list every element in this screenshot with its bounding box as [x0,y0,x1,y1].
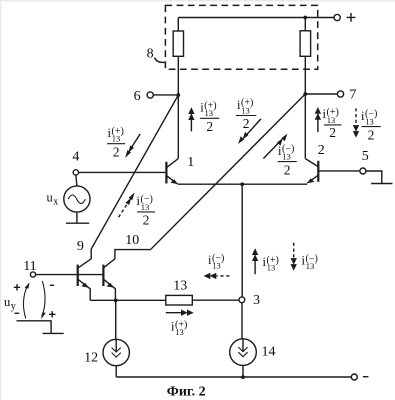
svg-text:2: 2 [206,119,213,134]
svg-text:x: x [53,196,58,207]
svg-text:13: 13 [267,263,276,273]
svg-text:9: 9 [77,239,84,254]
svg-text:2: 2 [284,162,291,177]
svg-text:2: 2 [368,127,375,142]
svg-text:13: 13 [112,134,121,144]
svg-text:7: 7 [349,87,356,102]
svg-text:6: 6 [134,89,141,104]
svg-text:10: 10 [125,233,139,248]
svg-text:13: 13 [175,327,184,337]
svg-text:2: 2 [143,213,150,228]
svg-text:5: 5 [362,149,369,164]
svg-text:Фиг. 2: Фиг. 2 [167,384,206,399]
svg-text:2: 2 [243,116,250,131]
svg-text:14: 14 [262,344,276,359]
svg-text:12: 12 [84,350,98,365]
svg-text:3: 3 [253,293,260,308]
svg-text:13: 13 [241,105,250,115]
svg-text:13: 13 [327,115,336,125]
svg-text:13: 13 [141,202,150,212]
svg-text:13: 13 [365,117,374,127]
svg-text:13: 13 [173,278,187,293]
svg-text:4: 4 [72,150,79,165]
svg-text:y: y [11,301,16,312]
svg-text:2: 2 [318,143,325,158]
svg-text:13: 13 [282,152,291,162]
svg-text:1: 1 [187,155,194,170]
svg-text:13: 13 [205,108,214,118]
svg-text:8: 8 [147,46,154,61]
svg-text:2: 2 [113,144,120,159]
svg-text:13: 13 [306,261,315,271]
svg-text:2: 2 [329,125,336,140]
svg-text:13: 13 [212,261,221,271]
